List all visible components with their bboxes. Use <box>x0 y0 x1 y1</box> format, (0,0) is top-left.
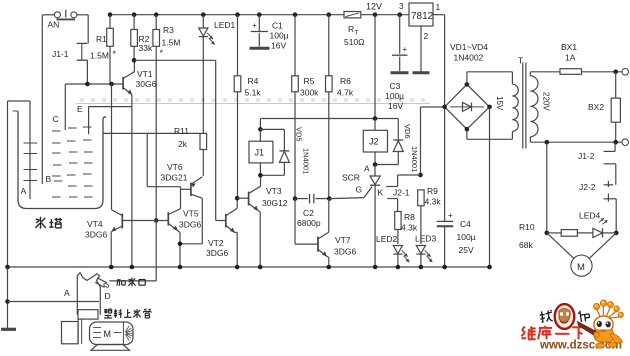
wire VT1 collector junction to VT2 base line <box>134 59 216 61</box>
transformer T primary 220V <box>530 72 550 142</box>
transistor VT6 3DG21 <box>161 162 203 244</box>
resistor R1 1.5M <box>90 15 117 84</box>
pump pipe <box>78 319 81 344</box>
wire VT5 collector up <box>180 187 182 209</box>
wire 12V feed down <box>374 15 376 119</box>
svg-text:15V: 15V <box>495 96 504 111</box>
watermark text weikuyixia <box>522 326 525 330</box>
svg-text:LED4: LED4 <box>579 211 601 221</box>
node C1 top <box>257 12 262 17</box>
svg-text:J1: J1 <box>255 148 265 158</box>
node motor right <box>614 231 619 236</box>
svg-text:+: + <box>403 45 408 54</box>
label water tower <box>35 217 62 229</box>
svg-text:VT6: VT6 <box>167 162 183 172</box>
transformer core <box>518 56 526 149</box>
svg-text:C1: C1 <box>272 21 283 31</box>
svg-text:25V: 25V <box>459 245 474 255</box>
node ground rail <box>373 265 378 270</box>
node motor branch <box>545 140 550 145</box>
svg-text:A: A <box>21 186 27 196</box>
electrode A ticks <box>24 143 38 181</box>
wire bridge bottom to secondary <box>467 129 513 139</box>
relay contact J2-1 <box>386 187 410 199</box>
svg-text:M: M <box>104 329 112 339</box>
svg-text:R9: R9 <box>427 186 438 196</box>
wire VT1 emitter to electrode E <box>89 95 132 135</box>
wire VT4/VT5 base link <box>122 220 168 222</box>
watermark text pian <box>578 309 590 322</box>
svg-text:7812: 7812 <box>411 11 434 22</box>
wire 7812 pin2 ground <box>420 26 422 72</box>
svg-text:LED3: LED3 <box>415 234 437 244</box>
wire VT1 emitter to ground rail <box>131 107 133 267</box>
wire ground rail <box>8 266 490 268</box>
svg-text:*: * <box>160 48 164 58</box>
svg-text:100µ: 100µ <box>385 91 404 101</box>
wire J1-1 to base node <box>86 60 88 84</box>
label suliao pipe <box>104 309 151 318</box>
svg-text:J2-1: J2-1 <box>393 188 410 198</box>
resistor R9 4.3k <box>418 186 442 244</box>
node funnel branch <box>5 299 10 304</box>
faint watermark artifact line <box>76 100 430 104</box>
resistor R6 4.7k <box>326 15 354 199</box>
svg-text:M: M <box>577 262 585 273</box>
svg-text:30G6: 30G6 <box>136 79 157 89</box>
label jiashuikou <box>117 278 145 287</box>
node VT2 collector / VT3 base / R4 <box>235 196 240 201</box>
svg-text:3DG6: 3DG6 <box>85 230 107 240</box>
svg-text:12V: 12V <box>366 2 382 12</box>
node C2 right / R6 / VT7 collector / gate <box>327 196 332 201</box>
svg-text:1A: 1A <box>565 53 576 63</box>
node C2 left / R5 / VT7 base <box>293 196 298 201</box>
ground 7812 pin2 <box>413 71 430 74</box>
electrode labels A B C E <box>21 104 84 196</box>
wire top supply rail <box>110 14 409 16</box>
transistor VT3 30G12 <box>237 176 288 267</box>
node R1 bottom / VT4 collector branch <box>109 82 114 87</box>
svg-text:J1-1: J1-1 <box>52 49 69 59</box>
diode VD6 1N4001 <box>375 119 419 173</box>
terminal mains bottom <box>622 139 629 146</box>
svg-text:R3: R3 <box>163 25 174 35</box>
node ground rail <box>178 265 183 270</box>
svg-text:T: T <box>518 56 523 66</box>
pump base <box>91 345 130 351</box>
wire BX1 to terminal <box>582 71 622 73</box>
svg-text:R: R <box>348 24 354 34</box>
svg-text:T: T <box>355 30 359 37</box>
svg-text:VD6: VD6 <box>403 124 412 139</box>
svg-text:R10: R10 <box>519 222 535 232</box>
transistor VT1 30G6 <box>123 61 156 94</box>
LED LED1 <box>199 15 236 134</box>
wire R10 row <box>547 232 561 234</box>
wire electrode C drop <box>64 84 66 130</box>
thyristor SCR <box>342 165 384 268</box>
node bridge top <box>465 82 470 87</box>
node BX2 top <box>613 70 618 75</box>
svg-text:30G12: 30G12 <box>262 198 288 208</box>
svg-text:16V: 16V <box>271 41 286 51</box>
wire bridge right to ground rail <box>489 107 491 267</box>
watermark seal circle <box>555 304 575 329</box>
resistor R3 1.5M <box>153 15 181 48</box>
wire primary bottom to terminal <box>530 141 622 143</box>
relay coil J2 <box>363 119 387 165</box>
svg-text:16V: 16V <box>388 101 403 111</box>
node ground rail <box>5 265 10 270</box>
pump motor body <box>90 322 134 345</box>
svg-text:2k: 2k <box>178 139 188 149</box>
svg-text:1.5M: 1.5M <box>162 38 181 48</box>
svg-text:K: K <box>378 188 384 198</box>
svg-text:R5: R5 <box>304 76 315 86</box>
node R4 top <box>235 12 240 17</box>
svg-text:B: B <box>46 174 52 184</box>
wire primary top to BX1 <box>530 71 560 73</box>
ground C1 <box>250 47 270 50</box>
capacitor C2 6800p <box>295 194 329 228</box>
node J1 bottom / VT3 collector <box>258 173 263 178</box>
node VT5 emitter / VT6 collector <box>178 242 183 247</box>
pump inlet box <box>62 322 79 344</box>
node bridge right <box>487 105 492 110</box>
node J1 top <box>258 127 263 132</box>
bridge rectifier VD1-VD4 1N4002 <box>445 42 490 129</box>
wire motor branch down <box>546 142 548 233</box>
svg-text:J2-2: J2-2 <box>579 182 596 192</box>
wire VT5 emitter down <box>178 231 203 268</box>
water tank outline <box>13 111 107 209</box>
svg-text:2: 2 <box>424 31 429 41</box>
node ground rail <box>419 265 424 270</box>
relay coil J1 <box>249 129 273 175</box>
wire VT1 base rail <box>65 83 123 85</box>
svg-text:VT3: VT3 <box>266 186 282 196</box>
relay contact J1-2 <box>578 142 616 164</box>
transistor VT7 3DG6 <box>295 199 356 267</box>
svg-text:68k: 68k <box>519 240 533 250</box>
node VT5 base <box>154 218 159 223</box>
node J1-1 branch <box>85 82 90 87</box>
LED LED3 <box>415 234 437 268</box>
svg-text:VD5: VD5 <box>295 127 304 142</box>
node ground rail <box>235 265 240 270</box>
svg-text:3DG21: 3DG21 <box>161 173 188 183</box>
wire VT2 base drop <box>215 60 217 220</box>
resistor RT 510ohm <box>344 12 365 48</box>
node BX2 bottom <box>613 140 618 145</box>
svg-text:G: G <box>356 185 363 195</box>
node ground rail <box>327 265 332 270</box>
ground C3 <box>391 71 409 74</box>
node J2 top 12V <box>373 116 378 121</box>
node ground rail <box>109 265 114 270</box>
svg-text:6800p: 6800p <box>297 218 321 228</box>
wire funnel electrode A <box>8 301 100 303</box>
watermark text zhao <box>539 310 553 323</box>
wire 12V rail mid <box>260 119 398 130</box>
terminal mains top <box>622 69 629 76</box>
svg-text:+: + <box>252 21 257 30</box>
svg-text:C2: C2 <box>303 208 314 218</box>
wire VT6 base from VT5 collector <box>181 188 191 190</box>
wire left rail to ground symbol <box>7 267 9 329</box>
node A SCR anode <box>373 162 378 167</box>
watermark logo dzsc <box>521 300 623 352</box>
wire bridge positive to R9 chain <box>421 107 445 175</box>
svg-text:VT2: VT2 <box>208 238 224 248</box>
regulator U1 7812 <box>409 2 441 41</box>
svg-text:4.7k: 4.7k <box>337 88 354 98</box>
relay contact J2-2 <box>579 164 616 202</box>
svg-text:3DG6: 3DG6 <box>334 247 356 257</box>
svg-text:300k: 300k <box>300 88 319 98</box>
svg-text:100µ: 100µ <box>457 232 476 242</box>
svg-text:J2: J2 <box>369 137 379 147</box>
svg-text:1.5M: 1.5M <box>90 51 109 61</box>
transistor VT2 3DG6 <box>206 198 237 267</box>
svg-text:BX1: BX1 <box>561 42 577 52</box>
svg-text:+: + <box>448 211 453 220</box>
svg-text:AN: AN <box>48 20 60 30</box>
svg-text:1N4002: 1N4002 <box>454 53 484 63</box>
svg-text:SCR: SCR <box>342 173 360 183</box>
wire R10 to LED4 <box>577 232 593 234</box>
watermark mascot <box>597 309 601 319</box>
svg-text:VT5: VT5 <box>183 209 199 219</box>
pushbutton AN <box>42 10 88 30</box>
motor M <box>547 233 616 276</box>
electrode A rod feed <box>8 101 31 267</box>
node R1 top <box>108 12 113 17</box>
node LED1 top <box>201 12 206 17</box>
node ground rail <box>442 265 447 270</box>
ground main <box>1 328 16 331</box>
wire bridge top to secondary <box>467 72 513 85</box>
wire J2-2 to motor node <box>615 199 617 233</box>
funnel water inlet <box>77 273 109 315</box>
svg-text:1N4001: 1N4001 <box>410 146 419 172</box>
node VT1 collector / R2 bottom <box>132 58 137 63</box>
capacitor C3 100u 16V <box>385 15 408 111</box>
node R2 top <box>132 12 137 17</box>
svg-text:R1: R1 <box>96 34 107 44</box>
svg-text:A: A <box>64 288 70 298</box>
node bridge bottom <box>465 127 470 132</box>
svg-text:LED1: LED1 <box>214 20 236 30</box>
electrode B rod <box>41 117 43 184</box>
node R3 top <box>154 12 159 17</box>
svg-text:1: 1 <box>436 2 441 12</box>
capacitor C1 100u 16V <box>251 15 289 51</box>
resistor R2 33k <box>131 15 164 61</box>
LED LED2 <box>376 234 409 267</box>
wire AN to J1-1 <box>87 15 89 44</box>
resistor R11 2k <box>174 126 207 176</box>
svg-text:*: * <box>113 49 117 59</box>
svg-text:100µ: 100µ <box>270 31 289 41</box>
relay contact J1-1 <box>52 43 87 60</box>
svg-text:J1-2: J1-2 <box>578 151 595 161</box>
svg-text:LED2: LED2 <box>376 234 398 244</box>
node ground rail <box>487 265 492 270</box>
wire 7812 pin1 to bridge <box>433 15 445 107</box>
diode VD5 1N4001 <box>260 127 310 175</box>
wire electrode D drop <box>109 221 156 281</box>
wire AN left to electrode B <box>41 15 43 117</box>
svg-text:E: E <box>77 104 83 114</box>
resistor R5 300k <box>292 15 319 199</box>
fuse BX1 1A <box>560 42 582 74</box>
svg-text:4.3k: 4.3k <box>401 223 418 233</box>
wire tank wall to R11 top <box>103 132 200 134</box>
svg-text:VD1~VD4: VD1~VD4 <box>450 42 488 52</box>
svg-text:R6: R6 <box>340 76 351 86</box>
funnel collar <box>78 310 98 319</box>
svg-text:VT4: VT4 <box>87 219 103 229</box>
wire R3 bottom to VT5 base node <box>155 46 157 220</box>
wire gate to SCR <box>329 187 372 199</box>
svg-text:R4: R4 <box>248 76 259 86</box>
svg-text:33k: 33k <box>139 43 153 53</box>
capacitor C4 100u 25V <box>437 107 476 267</box>
node ground rail <box>258 265 263 270</box>
svg-text:R11: R11 <box>174 126 189 136</box>
svg-text:C3: C3 <box>390 81 401 91</box>
node ground rail <box>130 265 135 270</box>
svg-text:C4: C4 <box>460 219 471 229</box>
node R6 top <box>327 12 332 17</box>
water level dashes <box>52 127 93 197</box>
LED LED4 <box>579 211 616 238</box>
svg-text:1N4001: 1N4001 <box>302 148 311 174</box>
node bridge left <box>442 105 447 110</box>
node R5 top <box>293 12 298 17</box>
resistor R10 68k <box>519 222 577 250</box>
svg-text:510Ω: 510Ω <box>344 37 365 47</box>
svg-text:220V: 220V <box>542 92 551 111</box>
node 12V <box>373 12 378 17</box>
svg-text:VT7: VT7 <box>335 235 351 245</box>
transistor VT5 3DG6 <box>168 209 201 231</box>
wire VT5 collector loop from tank sense <box>147 133 180 186</box>
wire to contact J2-1 <box>398 175 421 187</box>
svg-text:5.1k: 5.1k <box>245 88 262 98</box>
node motor left <box>545 231 550 236</box>
node C3 / pin3 tap <box>397 12 402 17</box>
svg-text:A: A <box>364 164 370 174</box>
svg-text:BX2: BX2 <box>588 102 604 112</box>
svg-text:VT1: VT1 <box>137 69 153 79</box>
svg-text:C: C <box>53 114 59 124</box>
svg-text:D: D <box>105 291 111 301</box>
svg-text:3DG6: 3DG6 <box>206 248 228 258</box>
transformer T secondary 15V <box>495 72 518 140</box>
node ground rail <box>396 265 401 270</box>
svg-text:3DG6: 3DG6 <box>179 220 201 230</box>
svg-text:4.3k: 4.3k <box>425 197 442 207</box>
svg-text:R8: R8 <box>404 212 415 222</box>
resistor R4 5.1k <box>234 15 261 199</box>
fuse BX2 <box>588 72 620 142</box>
transistor VT4 3DG6 <box>85 84 122 267</box>
node R9 top <box>418 173 423 178</box>
svg-text:3: 3 <box>399 1 404 11</box>
resistor R8 4.3k <box>395 199 418 245</box>
